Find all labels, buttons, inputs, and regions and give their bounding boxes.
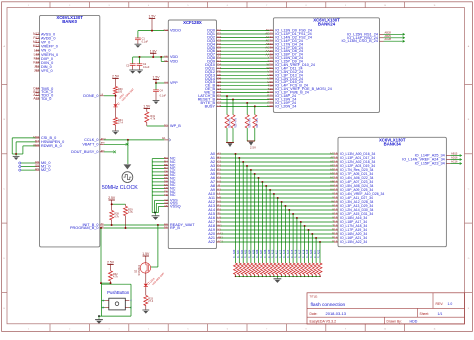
U4 pin AA16 IO_L5N_A08_D24_34 <box>334 185 338 187</box>
resistor RN A1 <box>237 263 241 275</box>
resistor RN A3 <box>245 263 249 275</box>
svg-text:IO_L20N_24: IO_L20N_24 <box>275 104 296 108</box>
svg-text:FL_A04: FL_A04 <box>249 249 252 258</box>
U2 pin B7 NC <box>164 168 168 170</box>
U3 pin AB30 IO_L17N_D4_24 <box>269 43 273 45</box>
U4 pin AC16 IO_L15P_A23_34 <box>446 163 450 165</box>
wire button bottom <box>99 315 131 317</box>
wire M2_0 mode strap <box>21 169 36 171</box>
U3 pin Y28 IO_L15N_D8_24 <box>269 57 273 59</box>
wire XCF A21 to BANK34 <box>221 237 335 239</box>
U3 pin N28 IO_L20N_24 <box>269 105 273 107</box>
U1 pin AD8 CSI_B_0 <box>36 137 40 139</box>
svg-text:NDS331N: NDS331N <box>138 264 141 275</box>
junction A22 <box>319 241 321 243</box>
power flag 1.5V (VDDO) <box>149 18 155 20</box>
wire pull-up pair A bottoms <box>226 128 228 142</box>
junction <box>265 276 267 278</box>
svg-text:2.5V: 2.5V <box>108 196 116 200</box>
svg-text:1.5V: 1.5V <box>153 75 161 79</box>
wire XCF to BANK24 row 1 <box>221 33 270 35</box>
svg-text:N28: N28 <box>267 104 273 108</box>
power flag 2.5V down (pair B) <box>247 140 255 142</box>
svg-text:FL_A08: FL_A08 <box>264 249 267 258</box>
wire XCF to BANK24 row 4 <box>221 43 270 45</box>
wire XCF A3 to BANK34 <box>221 165 335 167</box>
svg-text:J12: J12 <box>34 69 39 73</box>
svg-text:BANK0: BANK0 <box>62 19 77 24</box>
junction <box>315 276 317 278</box>
resistor RN A13 <box>283 263 287 275</box>
junction <box>125 227 127 229</box>
junction A21 <box>315 237 317 239</box>
U3 pin AB28 IO_L15N_RS1_24 <box>380 33 384 35</box>
U2 pin G7 BYTE_B <box>217 102 221 104</box>
junction <box>154 212 156 214</box>
U2 pin B3 NC <box>164 158 168 160</box>
wire VSS to ground <box>156 202 164 204</box>
svg-text:EasyEDA V5.3.2: EasyEDA V5.3.2 <box>310 320 337 324</box>
U2 pin Y1 A19 <box>217 229 221 231</box>
U2 pin E2 DQ1 <box>217 33 221 35</box>
svg-text:VDDO: VDDO <box>170 29 181 33</box>
button body <box>109 298 126 310</box>
wire XCF A22 to BANK34 <box>221 241 335 243</box>
resistor R25 4.7k pull-up <box>232 100 234 115</box>
U2 pin C4 DQ11 <box>217 68 221 70</box>
svg-text:PushButton: PushButton <box>107 290 130 295</box>
svg-text:REV:: REV: <box>436 302 444 306</box>
junction <box>319 276 321 278</box>
junction <box>157 224 159 226</box>
junction A17 <box>300 221 302 223</box>
U2 pin A3 VSS <box>164 202 168 204</box>
U1 pin L11 VN_0 <box>36 50 40 52</box>
svg-text:Date:: Date: <box>310 312 318 316</box>
U1 pin K11 DXP_0 <box>36 58 40 60</box>
resistor RN A20 <box>310 263 314 275</box>
wire A8 drop <box>265 186 267 263</box>
U3 pin AC30 IO_L17P_D5_24 <box>269 47 273 49</box>
resistor R32 4.7k <box>109 271 113 281</box>
junction <box>139 56 141 58</box>
wire XCF A13 to BANK34 <box>221 205 335 207</box>
wire A22 drop <box>319 242 321 263</box>
net port <box>460 162 462 164</box>
U1 pin AF9 DOUT_BUSY_0 <box>100 151 104 153</box>
U3 pin R29 IO_L18P_24 <box>269 95 273 97</box>
U2 pin F4 DQ8 <box>217 57 221 59</box>
U2 pin F5 DQ12 <box>217 71 221 73</box>
power flag 1.8V (VDD) <box>150 52 156 54</box>
wire XCF to BANK24 row 21 <box>221 102 270 104</box>
wire XCF to BANK24 row 10 <box>221 64 270 66</box>
svg-text:VPP: VPP <box>170 81 178 85</box>
svg-text:AC28: AC28 <box>385 37 392 41</box>
junction A1 <box>238 157 240 159</box>
wire NC tie <box>152 174 164 176</box>
U3 pin AA29 IO_L18N_D6_24 <box>269 50 273 52</box>
U2 pin U1 A16 <box>217 217 221 219</box>
resistor R30 100 <box>114 87 118 95</box>
svg-text:FL_A05: FL_A05 <box>252 249 255 258</box>
wire NC tie <box>152 178 164 180</box>
wire VDD rail <box>133 56 165 58</box>
wire XCF A14 to BANK34 <box>221 209 335 211</box>
resistor RN A9 <box>268 263 272 275</box>
wire A15 drop <box>292 214 294 263</box>
U1 pin D8 PROGRAM_B_0 <box>100 227 104 229</box>
resistor R33 27.4 <box>145 287 147 295</box>
svg-text:0.1uF: 0.1uF <box>142 40 149 43</box>
svg-text:P15: P15 <box>332 240 338 244</box>
wire IO_L15N_RS1_24 port <box>384 33 405 35</box>
junction <box>115 95 117 97</box>
U2 pin M1 A11 <box>217 197 221 199</box>
U4 pin V16 IO_L3P_A13_D29_34 <box>334 205 338 207</box>
svg-text:FL_A18: FL_A18 <box>302 249 305 258</box>
svg-text:0.1uF: 0.1uF <box>143 66 150 69</box>
svg-text:H9: H9 <box>35 168 39 172</box>
wire XCF to BANK24 row 7 <box>221 54 270 56</box>
wire WP_B <box>147 125 165 127</box>
resistor RN A2 <box>241 263 245 275</box>
svg-text:FL_A16: FL_A16 <box>295 249 298 258</box>
svg-text:D2: D2 <box>164 124 168 128</box>
FPGA U3 XC6VLX130T BANK24 <box>273 18 379 113</box>
U2 pin F1 A5 <box>217 173 221 175</box>
svg-text:4.7k: 4.7k <box>113 276 118 279</box>
U3 pin T29 IO_L1N_VREF_FOE_B_MOSI_24 <box>269 88 273 90</box>
net port <box>403 40 405 42</box>
wire M1_0 mode strap <box>21 166 36 168</box>
svg-text:A5: A5 <box>164 204 168 208</box>
wire A21 drop <box>315 238 317 263</box>
junction A16 <box>296 217 298 219</box>
wire A18 drop <box>304 226 306 263</box>
svg-text:VFS_0: VFS_0 <box>41 69 53 73</box>
button pin 4 <box>125 299 129 301</box>
resistor R34 27.4 <box>114 118 118 126</box>
svg-text:4.7k: 4.7k <box>128 211 133 214</box>
wire NC tie <box>152 168 164 170</box>
flash U2 XCF128X <box>168 20 216 249</box>
wire XCF A15 to BANK34 <box>221 213 335 215</box>
wire XCF A9 to BANK34 <box>221 189 335 191</box>
junction <box>235 276 237 278</box>
U2 pin C1 A2 <box>217 161 221 163</box>
U1 pin AF18 CCLK_0 <box>100 139 104 141</box>
wire A11 drop <box>277 198 279 263</box>
U2 pin F8 NC <box>164 194 168 196</box>
junction A9 <box>269 189 271 191</box>
junction <box>111 224 113 226</box>
resistor R27 4.7k pull-up <box>254 106 256 114</box>
junction <box>110 282 112 284</box>
svg-text:FL_A14: FL_A14 <box>287 249 290 258</box>
wire A12 drop <box>281 202 283 263</box>
ground (Q2 LED) <box>145 306 147 311</box>
junction <box>277 276 279 278</box>
U2 pin AA1 A20 <box>217 233 221 235</box>
U2 pin D6 NC <box>164 178 168 180</box>
U3 pin V29 IO_L3P_D13_24 <box>269 74 273 76</box>
wire A0 drop <box>235 154 237 263</box>
junction <box>289 276 291 278</box>
svg-text:1.5V: 1.5V <box>149 15 157 19</box>
wire IO_L14P_A25_34 port <box>450 155 461 157</box>
wire RDWR_B_0 to ground rail <box>23 145 36 147</box>
U2 pin E5 DQ13 <box>217 74 221 76</box>
junction <box>242 276 244 278</box>
U1 pin C12 TMS_0 <box>36 88 40 90</box>
U2 pin D5 RP_B <box>164 227 168 229</box>
junction A12 <box>281 201 283 203</box>
oscillator X1 50MHz clock symbol <box>122 172 133 183</box>
junction <box>312 276 314 278</box>
U2 pin C5 DQ15 <box>217 81 221 83</box>
svg-text:TITLE:: TITLE: <box>310 294 319 298</box>
junction A2 <box>242 161 244 163</box>
junction A13 <box>284 205 286 207</box>
ground (C1) <box>137 40 139 44</box>
svg-text:2.5V: 2.5V <box>107 261 115 265</box>
U1 pin B12 TCK_0 <box>36 91 40 93</box>
wire pull-up pair B bottoms <box>246 128 248 141</box>
junction A20 <box>311 233 313 235</box>
power flag 1.5V (VPP) <box>153 78 159 80</box>
U2 pin E4 DQ9 <box>217 61 221 63</box>
wire NC tie <box>152 181 164 183</box>
U2 pin D2 DQ2 <box>217 36 221 38</box>
U1 pin M11 VP_0 <box>36 42 40 44</box>
wire XCF A7 to BANK34 <box>221 181 335 183</box>
svg-text:2.5V: 2.5V <box>112 75 120 79</box>
svg-text:FL_A15: FL_A15 <box>291 249 294 258</box>
U2 pin J1 A8 <box>217 185 221 187</box>
capacitor C3 0.1uF <box>132 57 134 64</box>
resistor R31 4.7k <box>145 112 149 123</box>
capacitor C4 0.1uF <box>155 83 157 90</box>
U2 pin A5 VSSQ <box>164 206 168 208</box>
wire IO_L15P_A23_34 port <box>450 163 461 165</box>
svg-text:FL_A11: FL_A11 <box>275 249 278 258</box>
net port <box>460 154 462 156</box>
wire VSSQ to ground <box>158 206 164 208</box>
U2 pin B1 CE_B <box>217 85 221 87</box>
U2 pin B8 READY_WAIT <box>164 224 168 226</box>
resistor RN A4 <box>249 263 253 275</box>
U4 pin AD16 IO_L14N_VREF_A24_34 <box>446 159 450 161</box>
svg-text:A13: A13 <box>33 97 39 101</box>
wire XCF to BANK24 row 12 <box>221 71 270 73</box>
junction A8 <box>265 185 267 187</box>
power flag 2.5V (PROGRAM pull-up) <box>107 264 113 266</box>
svg-text:AB29: AB29 <box>385 34 392 38</box>
wire XCF to BANK24 row 9 <box>221 61 270 63</box>
svg-text:DOUT_BUSY_0: DOUT_BUSY_0 <box>71 150 98 154</box>
U2 pin D2 WP_B <box>164 125 168 127</box>
junction <box>246 276 248 278</box>
wire NC tie <box>152 158 164 160</box>
junction <box>155 82 157 84</box>
U2 pin D7 WE_B <box>217 92 221 94</box>
svg-text:AB28: AB28 <box>385 30 392 34</box>
junction <box>304 276 306 278</box>
U2 pin L1 A10 <box>217 193 221 195</box>
button pin 3 <box>125 307 129 309</box>
wire XCF A2 to BANK34 <box>221 161 335 163</box>
clock arrow <box>124 164 132 169</box>
U1 pin D7 HSWAPEN_0 <box>36 141 40 143</box>
wire A20 drop <box>311 234 313 263</box>
svg-text:AC1: AC1 <box>217 240 223 244</box>
resistor RN A10 <box>272 263 276 275</box>
svg-text:R26 4.7k: R26 4.7k <box>249 117 252 128</box>
U1 pin AE8 RDWR_B_0 <box>36 145 40 147</box>
wire XCF A17 to BANK34 <box>221 221 335 223</box>
wire NC tie <box>152 184 164 186</box>
FPGA U4 XC6VLX130T BANK34 <box>338 137 446 246</box>
junction <box>100 282 102 284</box>
U2 pin K1 A9 <box>217 189 221 191</box>
ground (C3) <box>132 66 134 70</box>
U4 pin AD15 IO_L7P_A05_D21_34 <box>334 173 338 175</box>
svg-text:CCLK_0: CCLK_0 <box>84 138 98 142</box>
wire clock drop <box>127 140 129 164</box>
U3 pin W28 IO_L4N_VREF_D10_24 <box>269 64 273 66</box>
power flag 2.5V (INIT/RP pull-ups) <box>109 199 115 201</box>
net port <box>403 33 405 35</box>
wire PROGRAM_B to push button <box>100 228 102 283</box>
svg-text:R25 4.7k: R25 4.7k <box>234 117 237 128</box>
U3 pin W29 IO_L4P_D11_24 <box>269 68 273 70</box>
svg-text:Drawn By:: Drawn By: <box>387 320 402 324</box>
junction <box>308 276 310 278</box>
wire A19 drop <box>308 230 310 263</box>
svg-text:FL_A06: FL_A06 <box>256 249 259 258</box>
wire NC tie <box>152 161 164 163</box>
U1 pin R8 INIT_B_0 <box>100 224 104 226</box>
wire A1 drop <box>238 158 240 263</box>
junction A19 <box>308 229 310 231</box>
svg-text:D5: D5 <box>164 226 168 230</box>
svg-text:FL_A19: FL_A19 <box>306 249 309 258</box>
wire PROGRAM_B_0 to XCF RP_B <box>104 227 165 229</box>
wire XCF A12 to BANK34 <box>221 201 335 203</box>
wire XCF to BANK24 row 19 <box>221 95 270 97</box>
junction A4 <box>250 169 252 171</box>
svg-text:IO_L15P_A23_34: IO_L15P_A23_34 <box>415 162 445 166</box>
no-connect flag <box>113 151 116 154</box>
U1 pin A12 TDO_0 <box>36 95 40 97</box>
svg-text:BANK34: BANK34 <box>384 141 402 146</box>
svg-text:A22: A22 <box>208 240 215 244</box>
U4 pin Y16 IO_L4N_VREF_A10_D26_34 <box>334 193 338 195</box>
wire A6 drop <box>258 178 260 263</box>
U3 pin Y29 IO_L15P_D9_24 <box>269 61 273 63</box>
wire XCF to BANK24 row 6 <box>221 50 270 52</box>
U4 pin AA15 IO_L5P_A09_D25_34 <box>334 189 338 191</box>
svg-text:AD16: AD16 <box>451 156 458 160</box>
power flag down (pair A) <box>226 141 234 143</box>
svg-text:FL_A07: FL_A07 <box>260 249 263 258</box>
resistor RN A5 <box>253 263 257 275</box>
U4 pin AE16 IO_L12N_A02_D18_34 <box>334 161 338 163</box>
wire A2 drop <box>242 162 244 263</box>
svg-text:PROGRAM_B_0: PROGRAM_B_0 <box>70 226 99 230</box>
junction A3 <box>246 165 248 167</box>
U1 pin L8 DONE_0 <box>100 95 104 97</box>
U2 pin E1 A4 <box>217 169 221 171</box>
transistor Q2 NDS331N <box>140 263 150 273</box>
svg-text:H1: H1 <box>164 59 168 63</box>
U4 pin AG15 IO_L13N_A00_D16_34 <box>334 153 338 155</box>
U3 pin P29 IO_L19P_24 <box>269 102 273 104</box>
U2 pin V1 A17 <box>217 221 221 223</box>
svg-text:FL_A13: FL_A13 <box>283 249 286 258</box>
wire VDDO rail <box>138 30 164 32</box>
junction <box>273 276 275 278</box>
U1 pin N12 AVSS_0 <box>36 34 40 36</box>
wire XCF to BANK24 row 17 <box>221 88 270 90</box>
svg-text:1.0: 1.0 <box>448 302 453 306</box>
U2 pin C8 NC <box>164 174 168 176</box>
U4 pin AB16 IO_L4P_A07_D23_34 <box>334 181 338 183</box>
U2 pin D3 DQ6 <box>217 50 221 52</box>
svg-text:XCF128X: XCF128X <box>183 20 202 25</box>
svg-text:IO_L15N_A22_34: IO_L15N_A22_34 <box>340 240 367 244</box>
svg-text:AB15: AB15 <box>451 152 458 156</box>
U2 pin B4 NC <box>164 161 168 163</box>
capacitor C1 0.1uF <box>137 31 139 38</box>
U2 pin H1 VDD <box>164 60 168 62</box>
svg-text:2018-03-13: 2018-03-13 <box>326 311 347 316</box>
junction <box>292 276 294 278</box>
wire NC tie <box>152 188 164 190</box>
resistor RN A6 <box>257 263 261 275</box>
wire termination rail <box>236 275 321 277</box>
resistor RN A0 <box>234 263 238 275</box>
wire XCF A10 to BANK34 <box>221 193 335 195</box>
svg-text:1.5V: 1.5V <box>143 105 151 109</box>
wire A7 drop <box>261 182 263 263</box>
wire NC tie <box>152 194 164 196</box>
U2 pin T1 A15 <box>217 213 221 215</box>
svg-text:1.8V: 1.8V <box>150 49 158 53</box>
power flag 1.5V (WP pull-up) <box>144 108 150 110</box>
svg-text:4.7k: 4.7k <box>114 215 119 218</box>
U4 pin W15 IO_L3N_A12_D28_34 <box>334 201 338 203</box>
svg-text:1.5V: 1.5V <box>142 252 150 256</box>
junction <box>239 276 241 278</box>
wire A4 drop <box>250 170 252 263</box>
U1 pin K12 DXN_0 <box>36 62 40 64</box>
svg-text:FL_A10: FL_A10 <box>272 249 275 258</box>
svg-text:TDI_0: TDI_0 <box>41 97 51 101</box>
wire ground rail under CSI/HSWAPEN/RDWR <box>12 153 23 155</box>
U1 pin AF8 VBATT_0 <box>100 143 104 145</box>
junction <box>254 276 256 278</box>
wire R32 to PROGRAM net <box>101 282 111 284</box>
button pin 2 <box>105 307 109 309</box>
junction <box>160 56 162 58</box>
ground (DONE LED) <box>115 125 117 131</box>
wire CCLK_0 to XCF CLK <box>104 139 165 141</box>
U4 pin AB15 IO_L14P_A25_34 <box>446 155 450 157</box>
button pin 1 <box>105 299 109 301</box>
wire XCF A19 to BANK34 <box>221 229 335 231</box>
